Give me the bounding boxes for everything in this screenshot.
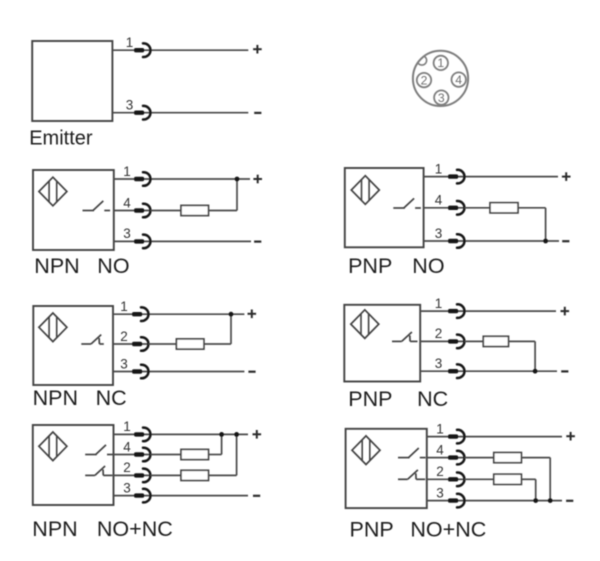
svg-text:4: 4 [123, 439, 131, 454]
svg-text:3: 3 [120, 356, 128, 371]
svg-text:3: 3 [123, 226, 131, 241]
svg-text:1: 1 [436, 421, 444, 436]
svg-text:1: 1 [435, 296, 443, 311]
svg-text:1: 1 [123, 419, 131, 434]
svg-text:PNP: PNP [350, 518, 394, 542]
svg-text:1: 1 [437, 56, 444, 70]
svg-text:NO+NC: NO+NC [410, 518, 486, 542]
svg-text:NO+NC: NO+NC [97, 517, 173, 541]
svg-text:3: 3 [435, 356, 443, 371]
svg-text:2: 2 [123, 460, 131, 475]
svg-text:4: 4 [435, 193, 443, 208]
svg-text:4: 4 [455, 73, 462, 87]
svg-text:1: 1 [123, 164, 131, 179]
svg-text:3: 3 [126, 98, 134, 113]
svg-text:PNP: PNP [348, 387, 392, 411]
svg-text:NC: NC [96, 386, 127, 410]
svg-text:3: 3 [436, 485, 444, 500]
svg-text:1: 1 [126, 35, 134, 50]
svg-text:3: 3 [438, 91, 445, 105]
svg-text:PNP: PNP [348, 254, 392, 278]
svg-text:2: 2 [120, 329, 128, 344]
svg-text:2: 2 [421, 73, 428, 87]
svg-text:NC: NC [417, 387, 448, 411]
svg-text:NO: NO [412, 254, 444, 278]
svg-text:1: 1 [435, 161, 443, 176]
svg-text:2: 2 [436, 464, 444, 479]
svg-text:3: 3 [435, 226, 443, 241]
svg-text:4: 4 [436, 442, 444, 457]
svg-text:2: 2 [435, 326, 443, 341]
svg-text:NPN: NPN [32, 517, 77, 541]
svg-text:NPN: NPN [34, 254, 79, 278]
svg-text:NO: NO [97, 254, 129, 278]
svg-text:Emitter: Emitter [29, 128, 93, 150]
svg-text:3: 3 [123, 480, 131, 495]
svg-text:NPN: NPN [33, 386, 78, 410]
svg-text:4: 4 [123, 195, 131, 210]
svg-text:1: 1 [120, 299, 128, 314]
